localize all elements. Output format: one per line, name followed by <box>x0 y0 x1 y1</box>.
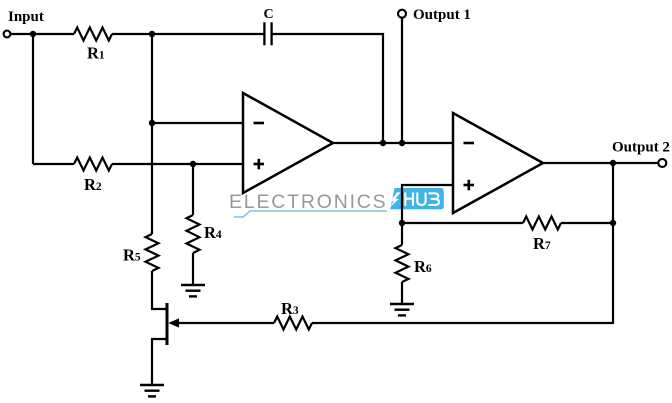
wire: left corner to R2 <box>33 163 74 165</box>
wire: R4 node down to R4 <box>192 164 194 215</box>
junction node: R7 right <box>610 220 616 226</box>
op-amp U2 <box>453 113 543 213</box>
wire: R4 bottom to ground <box>192 253 194 285</box>
junction node: input top <box>30 31 36 37</box>
svg-text:Output 2: Output 2 <box>612 140 670 156</box>
wire: R6 bottom to ground <box>401 282 403 304</box>
watermark HUB letters <box>405 193 439 205</box>
junction node: U1 minus input <box>149 120 155 126</box>
resistor R3 <box>274 317 312 330</box>
wire: capacitor to right corner down to U1 output node <box>273 34 383 143</box>
capacitor C <box>264 22 271 45</box>
wire: R7 to right node <box>561 222 613 224</box>
resistor R1 <box>74 28 112 41</box>
terminal: Output 2 <box>658 159 666 167</box>
wire: input to R1 <box>11 33 75 35</box>
resistor R7 <box>523 217 561 230</box>
wire: Output 1 terminal down to U1 output line <box>401 18 403 143</box>
wire: R1 to capacitor <box>112 33 263 35</box>
wire: R5 bottom to JFET drain <box>152 271 166 309</box>
wire: R3 to JFET gate arrow <box>176 322 274 324</box>
svg-text:C: C <box>264 7 274 22</box>
terminal: Output 1 <box>398 10 406 18</box>
wire: R2 to U1 plus input <box>112 163 243 165</box>
wire: U1 output to U2 minus input <box>333 142 453 144</box>
resistor R6 <box>396 245 409 282</box>
wire: input node down left side <box>32 34 34 164</box>
wire: right node down and left to R3 <box>312 223 613 323</box>
wire: JFET source to ground <box>152 339 166 385</box>
watermark HUB box <box>390 188 444 209</box>
watermark bolt <box>390 192 401 207</box>
watermark underline <box>234 211 387 217</box>
svg-text:Input: Input <box>8 9 44 25</box>
junction node: Output1 line on U1 output <box>399 140 405 146</box>
wire: U2 plus input left and down to R6 node <box>402 185 453 223</box>
junction node: top wire / minus branch <box>149 31 155 37</box>
resistor R2 <box>74 158 112 171</box>
resistor R4 <box>187 215 200 253</box>
junction node: Output 2 wire <box>610 160 616 166</box>
ground (under R4) <box>181 285 205 296</box>
op-amp U1 <box>243 93 333 193</box>
wire: U2 output to Output 2 terminal <box>543 162 658 164</box>
junction node: R4 top <box>190 161 196 167</box>
junction node: R6 / R7 / U2 plus <box>399 220 405 226</box>
wire: node to U1 minus input <box>152 122 243 124</box>
terminal: Input <box>4 31 11 38</box>
ground (under R6) <box>390 304 414 315</box>
svg-text:ELECTRONICS: ELECTRONICS <box>229 191 388 213</box>
wire: vertical from top node through minus node to R5 <box>151 34 153 234</box>
svg-text:Output 1: Output 1 <box>413 7 471 23</box>
transistor Q1 (JFET) <box>167 303 179 345</box>
wire: R6 node to R7 <box>402 222 523 224</box>
ground (under JFET source) <box>140 385 164 396</box>
wire: R6 top <box>401 223 403 245</box>
junction node: cap feedback on U1 output <box>380 140 386 146</box>
resistor R5 <box>146 234 159 271</box>
wire: Output 2 node down to R7 node <box>612 163 614 223</box>
